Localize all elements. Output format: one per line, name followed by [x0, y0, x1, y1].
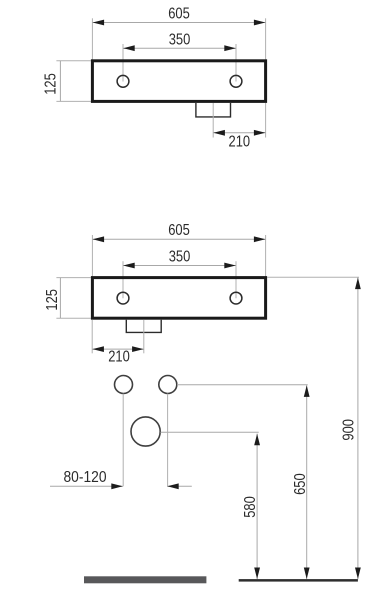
dim 900: top arrow (up): [355, 278, 361, 290]
dim 350 mid: left arrow: [123, 263, 135, 269]
mounting hole left (top drawing): [117, 75, 129, 87]
svg-text:650: 650: [292, 473, 309, 495]
dim 900: bottom arrow (down): [355, 568, 361, 580]
drain circle large: [131, 417, 160, 446]
dim 605 mid: right arrow: [254, 236, 266, 242]
body rectangle top: [92, 61, 265, 102]
connector line from right pipe to 650 dim: [177, 384, 308, 386]
floor reference line: [239, 579, 358, 582]
dim 650: top arrow (up): [304, 385, 310, 397]
dim 350 top: extension line left (to circle): [122, 44, 124, 82]
drop line from left pipe: [122, 394, 124, 487]
dim 210 mid: right arrow: [132, 346, 144, 352]
dim 80-120: right leader line: [167, 485, 192, 487]
dim 350 top: dimension line: [123, 47, 236, 49]
dim 210 mid: extension line at left edge: [91, 320, 93, 354]
dim 580: dimension line: [256, 434, 258, 580]
dim 80-120: right arrow (pointing left): [167, 483, 179, 489]
dim 210 top: extension line at right edge: [265, 103, 267, 138]
outlet tab (middle drawing, left): [126, 320, 161, 333]
connector line from drain to 580 dim: [160, 431, 258, 433]
dim 210 top: dimension line: [213, 132, 265, 134]
dim 350 mid: extension line right: [235, 261, 237, 298]
dim 210 top: left arrow: [213, 130, 225, 136]
drop line from right pipe: [167, 394, 169, 487]
mounting hole right (top drawing): [230, 75, 242, 87]
dim 605 mid: extension line left: [91, 235, 93, 277]
dim 605 mid: extension line right: [265, 235, 267, 277]
dim 125 top: extension line lower: [56, 100, 91, 102]
body rectangle middle: [92, 278, 265, 319]
dim 210 top: right arrow: [254, 130, 266, 136]
dim 210 mid: dimension line: [92, 348, 144, 350]
svg-text:350: 350: [169, 31, 191, 48]
svg-text:210: 210: [108, 349, 130, 366]
dim 350 top: left arrow: [123, 45, 135, 51]
dim 605 top: dimension line: [92, 22, 265, 24]
floor bar (wall/floor section, grey): [84, 576, 206, 583]
svg-text:210: 210: [229, 133, 251, 150]
dim 350 mid: extension line left: [122, 261, 124, 298]
dim 125 mid: extension line lower: [56, 317, 91, 319]
dim 605 top: extension line right: [265, 18, 267, 60]
dim 80-120: left arrow (pointing right): [111, 483, 123, 489]
svg-text:350: 350: [169, 249, 191, 266]
dim 350 mid: right arrow: [224, 263, 236, 269]
dim 125 mid: extension line upper: [56, 277, 91, 279]
dim 350 mid: dimension line: [123, 265, 236, 267]
dim 125 mid: dimension line: [59, 278, 61, 319]
svg-text:605: 605: [168, 6, 190, 23]
dim 125 top: dimension line: [59, 61, 61, 102]
dim 605 top: left arrow: [93, 20, 105, 26]
svg-text:900: 900: [341, 419, 358, 441]
supply pipe circle left: [115, 376, 133, 394]
dim 900: dimension line: [357, 277, 359, 579]
dim 125 top: extension line upper: [56, 60, 91, 62]
dim 350 top: extension line right (to circle): [235, 44, 237, 82]
dim 580: bottom arrow (down): [254, 568, 260, 580]
supply pipe circle right: [159, 376, 177, 394]
svg-text:125: 125: [43, 73, 60, 95]
dim 80-120: left leader line: [50, 485, 123, 487]
svg-text:580: 580: [242, 496, 259, 518]
dim 650: bottom arrow (down): [304, 568, 310, 580]
dim 580: top arrow (up): [254, 434, 260, 446]
dim 605 top: right arrow: [254, 20, 266, 26]
dim 650: dimension line: [306, 385, 308, 579]
dim 350 top: right arrow: [224, 45, 236, 51]
dim 605 mid: dimension line: [92, 238, 265, 240]
dim 210 mid: extension line at tab centre: [143, 320, 145, 354]
svg-text:80-120: 80-120: [64, 469, 107, 486]
mounting hole left (middle drawing): [117, 292, 129, 304]
dim 900: horizontal extension from rect top to right: [267, 276, 359, 278]
svg-text:605: 605: [168, 222, 190, 239]
dim 210 top: extension line at tab centre: [212, 103, 214, 138]
dim 605 top: extension line left: [91, 18, 93, 60]
dim 210 mid: left arrow: [92, 346, 104, 352]
dim 605 mid: left arrow: [93, 236, 105, 242]
mounting hole right (middle drawing): [230, 292, 242, 304]
outlet tab (top drawing, right): [196, 103, 231, 117]
svg-text:125: 125: [44, 289, 61, 311]
